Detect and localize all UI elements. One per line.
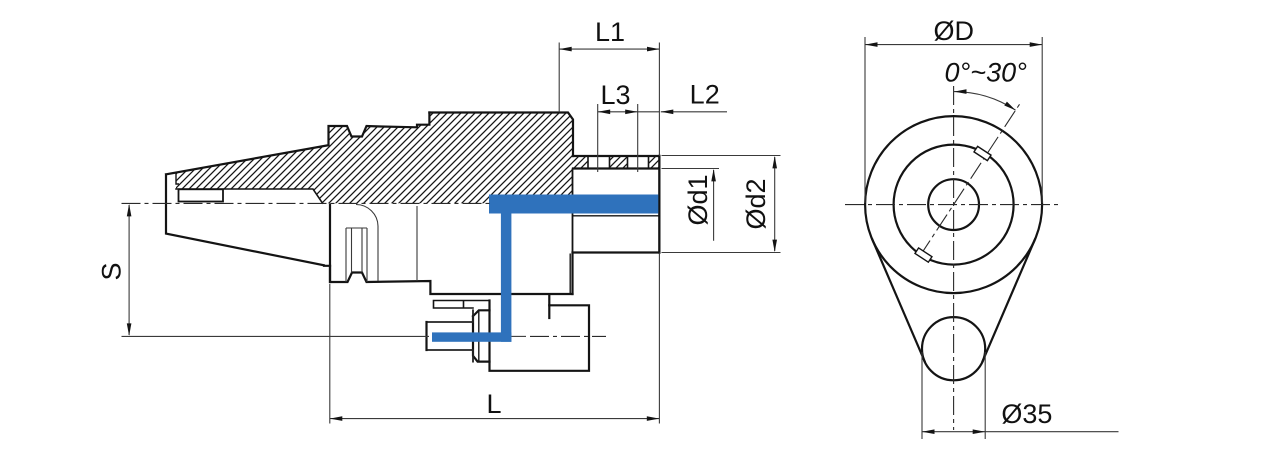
flange front face (lower half) bbox=[329, 205, 331, 283]
dimension Ø35 bbox=[922, 352, 1119, 439]
dimension ØD bbox=[865, 37, 1042, 203]
spindle collar (chamfered) bbox=[473, 310, 490, 361]
spindle nose end face bbox=[425, 322, 427, 350]
pull-stud thread bore (white box) bbox=[179, 189, 224, 201]
tilted centerline (30 deg) bbox=[920, 104, 1020, 256]
front view middle circle bbox=[894, 145, 1014, 265]
spindle nose cylinder bbox=[427, 310, 474, 361]
vertical centerline bbox=[953, 86, 955, 430]
front view outer circle bbox=[865, 116, 1042, 293]
svg-text:S: S bbox=[97, 262, 127, 280]
front view inner bore circle bbox=[928, 179, 979, 230]
nose end face bbox=[658, 156, 660, 253]
dimension L3 bbox=[598, 104, 638, 172]
svg-text:L2: L2 bbox=[690, 80, 720, 110]
cone-flange fillet (ball groove) bbox=[356, 205, 378, 282]
coolant outlet horizontal (blue) bbox=[432, 332, 511, 341]
flange back edges bbox=[416, 206, 418, 281]
dimension Ød2 bbox=[662, 156, 781, 253]
taper shank (BT cone) outline bbox=[166, 145, 330, 266]
svg-text:L1: L1 bbox=[595, 17, 625, 47]
common extension line at nose end x=659.4 bbox=[658, 43, 660, 424]
clamp tick lower bbox=[915, 248, 932, 262]
svg-text:L3: L3 bbox=[600, 80, 630, 110]
nose strip (sectioned wall, half section) bbox=[573, 156, 659, 169]
main axis centerline bbox=[122, 202, 493, 204]
svg-text:Ød2: Ød2 bbox=[741, 178, 771, 229]
angle dimension arc bbox=[954, 92, 1016, 111]
nose bottom edge bbox=[573, 253, 660, 295]
nose strip hatch cells bbox=[573, 156, 588, 169]
horizontal centerline bbox=[845, 204, 1062, 206]
collar chamfer ridge bbox=[478, 310, 480, 361]
svg-text:Ød1: Ød1 bbox=[683, 174, 713, 225]
coolant channel horizontal (blue) bbox=[489, 195, 659, 214]
dimension L2 bbox=[638, 111, 727, 113]
teardrop right tangent bbox=[983, 240, 1035, 362]
flange groove edges below centerline bbox=[346, 228, 367, 282]
hatched section (taper shank + flange + body, upper half) bbox=[176, 113, 573, 204]
shank internal bore line bbox=[176, 189, 323, 203]
body end second edge bbox=[569, 254, 571, 294]
flange top profile with V-groove bbox=[329, 113, 430, 146]
body top edge bbox=[429, 113, 573, 157]
dimension L bbox=[330, 284, 660, 424]
nose strip cell dividers bbox=[588, 156, 649, 169]
teardrop left tangent bbox=[872, 240, 924, 362]
head block inner edge bbox=[548, 305, 550, 318]
shank left-end step bbox=[176, 173, 179, 184]
dimension S bbox=[128, 205, 130, 335]
head housing block bbox=[490, 296, 590, 371]
dimension L1 bbox=[559, 43, 659, 113]
svg-text:0°~30°: 0°~30° bbox=[944, 58, 1027, 88]
clamp tick upper bbox=[974, 146, 991, 160]
coolant bore lower line bbox=[573, 215, 659, 217]
coolant channel vertical (blue) bbox=[501, 214, 512, 342]
lower spindle axis: extension + centerline bbox=[122, 335, 430, 337]
lower spindle circle bbox=[922, 317, 985, 380]
svg-text:Ø35: Ø35 bbox=[1001, 399, 1052, 429]
mounting plate under body bbox=[434, 301, 490, 309]
nose end face over coolant bbox=[658, 156, 660, 253]
body end face segments at x=572.5 bbox=[572, 169, 574, 253]
dimension Ød1 bbox=[662, 169, 720, 241]
svg-text:ØD: ØD bbox=[934, 16, 975, 46]
svg-text:L: L bbox=[486, 389, 501, 419]
flange bottom profile with V-groove (external view) bbox=[330, 266, 573, 294]
